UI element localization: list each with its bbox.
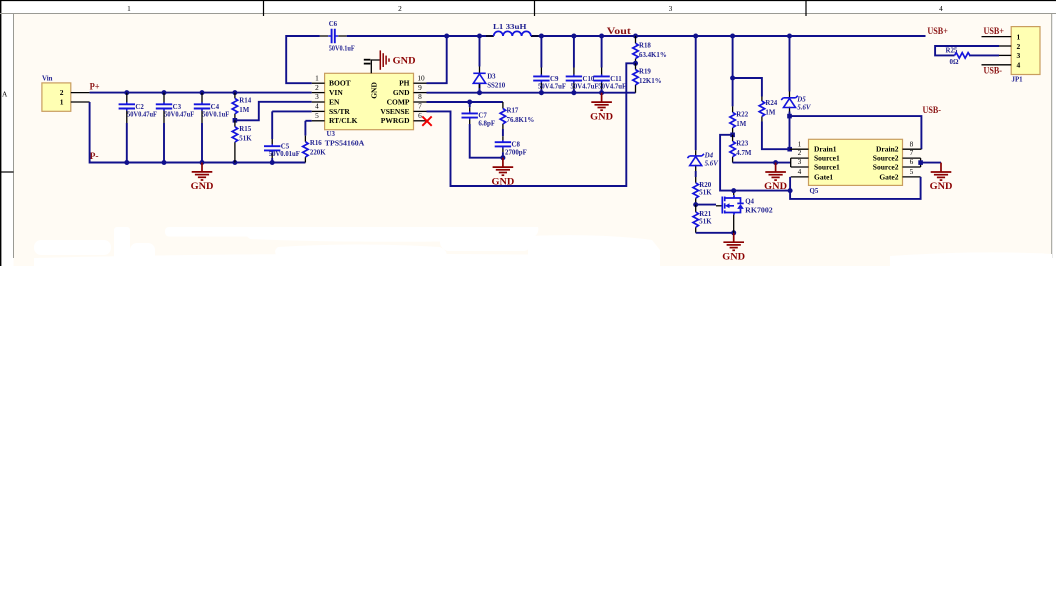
svg-text:3: 3	[1017, 51, 1021, 60]
wire JP1 pin2 loop	[935, 46, 999, 55]
svg-text:GND: GND	[722, 251, 745, 261]
resistor R20	[693, 177, 712, 205]
svg-text:8: 8	[910, 139, 914, 148]
wire P+ rail	[90, 92, 312, 94]
svg-text:USB+: USB+	[984, 26, 1005, 36]
svg-text:4: 4	[939, 4, 943, 13]
svg-text:A: A	[2, 89, 8, 98]
wire Source2 to GND	[921, 162, 941, 164]
svg-text:R17: R17	[507, 108, 519, 115]
junction C8/C7/GND	[500, 155, 505, 160]
frame: outer border top	[0, 0, 1056, 2]
svg-text:D4: D4	[704, 153, 714, 160]
connector Vin	[42, 76, 71, 112]
svg-text:GND: GND	[393, 88, 410, 97]
resistor R15	[232, 120, 252, 162]
junction gate net / Q5 Gate1	[788, 188, 793, 193]
svg-text:8: 8	[418, 92, 422, 101]
svg-text:5.6V: 5.6V	[705, 160, 720, 167]
capacitor C5	[264, 111, 300, 162]
svg-text:RK7002: RK7002	[745, 207, 773, 214]
svg-text:51K: 51K	[239, 135, 252, 142]
U3 pin 9 stub	[414, 92, 427, 94]
resistor R17	[500, 102, 534, 129]
wire P- rail	[90, 102, 306, 163]
svg-text:Vout: Vout	[607, 26, 631, 36]
JP1 pin 3 stub	[999, 54, 1011, 56]
svg-text:0Ω: 0Ω	[950, 59, 959, 66]
ground below Q4	[722, 233, 745, 262]
U3 pin 1 stub	[312, 82, 325, 84]
svg-text:1: 1	[60, 98, 64, 107]
svg-text:3: 3	[315, 92, 319, 101]
svg-text:C11: C11	[610, 76, 622, 83]
junction dots top rail	[444, 34, 792, 39]
svg-text:3: 3	[669, 4, 673, 13]
inductor L1	[486, 24, 539, 36]
junction Q5 pins 6/7	[918, 160, 923, 165]
wire top rail L1 to USB+	[531, 35, 926, 37]
svg-text:SS210: SS210	[487, 83, 506, 90]
svg-text:7: 7	[418, 102, 422, 111]
svg-text:1: 1	[315, 73, 319, 82]
svg-text:GND: GND	[590, 111, 613, 121]
svg-text:50V0.01uF: 50V0.01uF	[269, 151, 300, 158]
svg-text:L1 33uH: L1 33uH	[493, 24, 527, 31]
junction D5 / USB-	[787, 114, 792, 119]
svg-text:C4: C4	[211, 104, 220, 111]
svg-text:R19: R19	[639, 69, 651, 76]
capacitor C2	[119, 93, 157, 163]
ground below C11	[590, 93, 613, 122]
svg-text:VSENSE: VSENSE	[380, 107, 409, 116]
svg-text:Q4: Q4	[745, 199, 754, 206]
wire R21 bottom to Q4 source/GND	[696, 232, 734, 234]
svg-text:Source1: Source1	[814, 154, 840, 163]
svg-text:3: 3	[798, 157, 802, 166]
wire R25 to JP1 pin3	[969, 54, 999, 56]
capacitor C7	[462, 102, 503, 158]
resistor R22	[730, 78, 749, 135]
svg-text:C6: C6	[329, 21, 338, 28]
svg-text:1: 1	[1017, 32, 1021, 41]
svg-text:C3: C3	[173, 104, 182, 111]
svg-text:R23: R23	[736, 141, 748, 148]
svg-text:63.4K1%: 63.4K1%	[639, 52, 667, 59]
svg-text:Vin: Vin	[42, 76, 53, 83]
svg-text:50V4.7uF: 50V4.7uF	[538, 84, 566, 91]
capacitor C6	[320, 21, 355, 52]
Q5 pin 1 stub	[790, 148, 809, 150]
svg-text:PWRGD: PWRGD	[381, 116, 410, 125]
frame: sheet inner border	[0, 14, 1056, 259]
svg-text:R16: R16	[310, 140, 322, 147]
Q5 pin 6 stub	[903, 166, 921, 168]
frame: outer border left	[0, 0, 2, 270]
svg-text:50V0.1uF: 50V0.1uF	[329, 46, 355, 53]
svg-text:7: 7	[910, 148, 914, 157]
wire RT/CLK to R16	[305, 120, 311, 122]
zener diode D5	[781, 36, 812, 116]
svg-text:1: 1	[798, 139, 802, 148]
capacitor C11	[593, 36, 626, 93]
svg-text:Source2: Source2	[873, 154, 899, 163]
junction Q5 pin1	[787, 147, 792, 152]
svg-text:USB-: USB-	[984, 66, 1003, 76]
wire to R24	[733, 78, 762, 97]
svg-text:GND: GND	[930, 181, 953, 191]
frame: ruler tick 2|3	[534, 0, 536, 16]
wire VSENSE feedback	[427, 63, 636, 186]
U3 pin 11 line	[371, 60, 379, 73]
resistor R19	[633, 63, 662, 92]
transistor Q4 RK7002	[716, 191, 773, 233]
junction R14/R15	[233, 118, 238, 123]
svg-text:Source2: Source2	[873, 162, 899, 171]
svg-text:PH: PH	[399, 79, 410, 88]
svg-text:U3: U3	[327, 131, 336, 138]
svg-text:50V4.7uF: 50V4.7uF	[571, 84, 599, 91]
svg-text:C8: C8	[512, 142, 521, 149]
svg-text:51K: 51K	[699, 219, 712, 226]
svg-text:5: 5	[315, 111, 319, 120]
U3 pin 2 stub	[312, 92, 325, 94]
wire R22/R23 junction to gate net	[720, 135, 790, 191]
junction R22/R23	[730, 133, 735, 138]
ground at Q5 source2	[930, 163, 953, 192]
wire D5 down to Q5 pin1	[789, 116, 791, 149]
svg-text:Q5: Q5	[810, 188, 819, 195]
frame: ruler tick 3|4	[805, 0, 807, 16]
U3 pin 8 stub	[414, 101, 427, 103]
ground at Q5 source1	[764, 163, 787, 192]
U3 pin 10 stub	[414, 82, 427, 84]
resistor R21	[693, 205, 712, 233]
wire R24 bottom to Q5 pin1	[762, 122, 790, 150]
svg-text:R15: R15	[239, 126, 251, 133]
svg-text:9: 9	[418, 83, 422, 92]
frame: ruler tick 1|2	[263, 0, 265, 16]
junction Q4 source GND	[731, 230, 736, 235]
svg-text:2: 2	[60, 88, 64, 97]
connector JP1	[1011, 27, 1040, 84]
U3 pin 5 stub	[312, 120, 325, 122]
svg-text:Gate1: Gate1	[814, 172, 833, 181]
svg-text:1M: 1M	[239, 107, 249, 114]
zener diode D4	[687, 36, 719, 177]
svg-text:12K1%: 12K1%	[639, 78, 662, 85]
svg-text:4: 4	[1017, 61, 1021, 70]
svg-text:50V0.47uF: 50V0.47uF	[127, 112, 157, 119]
wire GND pin9 rail	[427, 92, 636, 94]
svg-text:50V0.1uF: 50V0.1uF	[202, 112, 229, 119]
svg-text:R21: R21	[699, 211, 711, 218]
svg-text:C10: C10	[583, 76, 595, 83]
wire Gate2 loop to gate net	[790, 177, 921, 199]
wire COMP to R17	[427, 101, 503, 103]
ground at pin 11 (rotated right)	[380, 50, 416, 69]
svg-text:USB-: USB-	[923, 105, 942, 115]
svg-text:BOOT: BOOT	[329, 79, 351, 88]
resistor R25	[946, 47, 970, 66]
junction GND drop on source wire	[773, 160, 778, 165]
capacitor C9	[533, 36, 566, 93]
svg-text:2700pF: 2700pF	[505, 149, 527, 156]
Q5 pin 2 stub	[791, 158, 809, 167]
svg-text:4: 4	[798, 167, 802, 176]
Vin pin 2 stub	[71, 92, 90, 94]
svg-text:RT/CLK: RT/CLK	[329, 116, 358, 125]
wire EN from R14/R15 junction	[235, 102, 312, 121]
svg-text:SS/TR: SS/TR	[329, 107, 350, 116]
svg-text:6: 6	[910, 157, 914, 166]
svg-text:6.8pF: 6.8pF	[478, 120, 495, 127]
JP1 pin 4 stub	[982, 64, 1012, 66]
Vin pin 1 stub	[71, 101, 90, 103]
no-connect X on pin 6	[422, 116, 431, 125]
svg-text:2: 2	[1017, 42, 1021, 51]
svg-text:220K: 220K	[310, 150, 326, 157]
svg-text:2: 2	[398, 4, 402, 13]
wire Gate1 to gate net	[789, 177, 791, 191]
svg-text:VIN: VIN	[329, 88, 343, 97]
resistor R14	[232, 93, 252, 121]
resistor R16	[303, 121, 327, 163]
JP1 pin 2 stub	[999, 45, 1011, 47]
svg-text:R18: R18	[639, 42, 651, 49]
U3 pin 4 stub	[312, 110, 325, 112]
svg-text:P+: P+	[90, 82, 100, 92]
transistor Q5 dual MOSFET block	[809, 139, 903, 195]
wire top rail C6 to L1	[347, 35, 494, 37]
svg-text:51K: 51K	[699, 190, 712, 197]
U3 pin numbers	[315, 73, 425, 120]
svg-text:COMP: COMP	[387, 97, 410, 106]
U3 pin 6 stub	[414, 120, 427, 122]
junction R20/R21/Q4 gate	[693, 202, 698, 207]
U3 pin 7 stub	[414, 110, 427, 112]
capacitor C10	[566, 36, 599, 93]
svg-text:50V4.7uF: 50V4.7uF	[598, 84, 626, 91]
svg-text:R25: R25	[946, 47, 958, 54]
wire Q4 gate	[696, 204, 716, 206]
Q5 pin 3 stub	[791, 166, 809, 168]
svg-text:6: 6	[418, 111, 422, 120]
svg-text:10: 10	[417, 73, 425, 82]
resistor R24	[759, 97, 778, 122]
svg-text:1: 1	[127, 4, 131, 13]
junction gate net / Q4 drain	[731, 188, 736, 193]
svg-text:R24: R24	[765, 100, 777, 107]
junction dots P+ rail	[124, 90, 237, 95]
svg-text:GND: GND	[492, 176, 515, 186]
Q5 pin 7 stub	[903, 158, 921, 167]
svg-text:4.7M: 4.7M	[736, 150, 752, 157]
ground below C4	[191, 163, 214, 192]
wire SS/TR to C5	[272, 110, 312, 112]
frame: left ruler tick A|B	[0, 171, 14, 173]
svg-text:Drain2: Drain2	[876, 145, 899, 154]
svg-text:R20: R20	[699, 182, 711, 189]
svg-text:P-: P-	[90, 151, 99, 161]
capacitor C4	[194, 93, 229, 163]
svg-text:GND: GND	[191, 181, 214, 191]
Q5 pin 5 stub	[903, 176, 921, 178]
resistor R23	[730, 135, 752, 163]
svg-text:JP1: JP1	[1012, 77, 1024, 84]
wire R23 bottom to Q5 pins 2/3	[733, 162, 791, 164]
svg-text:1M: 1M	[765, 110, 775, 117]
svg-text:GND: GND	[369, 82, 378, 99]
svg-text:Source1: Source1	[814, 162, 840, 171]
svg-text:USB+: USB+	[927, 26, 948, 36]
svg-text:2: 2	[315, 83, 319, 92]
capacitor C8	[495, 129, 527, 158]
Q5 pin numbers	[798, 139, 914, 176]
junction COMP/C7	[467, 100, 472, 105]
svg-text:5: 5	[910, 167, 914, 176]
capacitor C3	[156, 93, 194, 163]
svg-text:C9: C9	[550, 76, 559, 83]
svg-text:1M: 1M	[736, 121, 746, 128]
Q5 pin 4 stub	[791, 176, 809, 178]
svg-text:4: 4	[315, 102, 319, 111]
svg-text:GND: GND	[393, 55, 416, 65]
svg-text:GND: GND	[764, 181, 787, 191]
svg-text:C2: C2	[135, 104, 144, 111]
diode D3 SS210	[473, 36, 505, 93]
junction R22/R24	[730, 76, 735, 81]
svg-text:C5: C5	[281, 144, 290, 151]
svg-text:50V0.47uF: 50V0.47uF	[164, 112, 194, 119]
JP1 pin 1 stub	[982, 36, 1012, 38]
erased white blobs bottom band	[0, 227, 1056, 604]
U3 pin 11 number	[364, 59, 371, 61]
junction dots P- rail	[124, 160, 274, 165]
svg-text:Drain1: Drain1	[814, 145, 837, 154]
wire PH to top rail	[427, 36, 447, 83]
wire BOOT loop to C6	[286, 36, 320, 83]
svg-text:R14: R14	[239, 98, 251, 105]
svg-text:5.6V: 5.6V	[797, 104, 812, 111]
svg-text:Gate2: Gate2	[879, 172, 898, 181]
svg-text:76.8K1%: 76.8K1%	[507, 117, 535, 124]
resistor R18	[633, 36, 667, 63]
U3 pin 3 stub	[312, 101, 325, 103]
svg-text:R22: R22	[736, 112, 748, 119]
svg-text:TPS54160A: TPS54160A	[325, 140, 365, 147]
op-amp U1 equivalent: IC U3 TPS54160A	[325, 73, 414, 147]
svg-text:D3: D3	[487, 74, 496, 81]
svg-text:2: 2	[798, 148, 802, 157]
Q5 pin 8 stub	[903, 148, 922, 150]
svg-text:D5: D5	[796, 97, 806, 104]
junction R18/R19 feedback	[633, 61, 638, 66]
svg-text:EN: EN	[329, 97, 340, 106]
svg-text:C7: C7	[478, 112, 487, 119]
ground below C8	[492, 158, 515, 187]
wire R22 branch from rail	[732, 36, 734, 78]
wire USB- to Drain2	[790, 116, 922, 149]
junction dots GND rail	[477, 90, 604, 95]
